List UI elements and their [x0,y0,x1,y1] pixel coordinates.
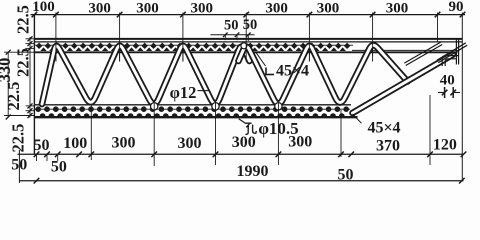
dimension labels bottom chain [11,133,457,183]
svg-text:300: 300 [288,133,312,150]
svg-text:φ12: φ12 [170,83,197,102]
svg-text:300: 300 [386,0,409,16]
svg-text:300: 300 [112,135,136,152]
bottom chord rivet dots [35,106,349,112]
bottom chord flat bar 45x4 [34,105,357,117]
bottom chord bent-up diagonal [353,55,454,114]
svg-text:370: 370 [376,138,400,155]
svg-text:45×4: 45×4 [367,119,400,136]
label hole phi10.5 [239,119,299,138]
svg-text:300: 300 [178,135,202,152]
top chord weld triangles [40,47,346,51]
bolt holes phi10.5 [151,43,283,110]
svg-text:45×4: 45×4 [276,63,309,80]
svg-text:300: 300 [136,0,159,16]
svg-text:330: 330 [0,58,14,83]
svg-text:40: 40 [440,72,455,88]
svg-text:50: 50 [34,137,50,154]
label 45x4 bottom chord [353,114,401,136]
dimension 1990 overall [19,150,464,184]
dimension 50 50 at lap joint [211,17,258,41]
left dimension label 22.5 bottom [9,124,28,153]
dimension line bottom chain [18,152,467,162]
svg-text:50: 50 [224,18,239,34]
extension lines top chain [56,13,462,182]
svg-text:300: 300 [88,0,111,16]
dimension 40 seat width [438,72,460,98]
svg-text:300: 300 [317,0,340,16]
svg-text:120: 120 [433,137,457,154]
svg-text:300: 300 [265,0,288,16]
svg-text:22.5: 22.5 [9,124,28,153]
label L45x4 top chord [256,52,310,80]
left extension stubs [4,39,34,116]
anchor stroke 2 at support [437,43,467,63]
svg-text:300: 300 [190,0,213,16]
svg-text:90: 90 [449,0,464,15]
left dimension labels [0,5,33,110]
apex centreline stubs [56,43,373,62]
svg-text:100: 100 [32,0,55,15]
bottom chord scallops [40,113,345,116]
dimension line top chain [31,12,466,18]
top chord rivet dots [36,43,350,49]
svg-text:300: 300 [232,134,256,151]
svg-text:100: 100 [63,135,87,152]
web bar 2 zigzag phi12 [239,45,408,104]
svg-text:50: 50 [243,17,258,33]
right end post and seat angle [442,39,458,66]
top chord angle L45x4 [34,39,462,52]
svg-text:22.5: 22.5 [14,48,33,77]
dimension labels top chain [32,0,463,16]
left inner dimension chain 22.5 [28,36,33,118]
left edge extension line [33,15,35,155]
svg-text:22.5: 22.5 [4,82,23,111]
svg-text:50: 50 [51,158,67,175]
label phi12 web bar [170,83,209,102]
anchor stroke 1 at support [404,42,442,65]
web bar 1 zigzag phi12 [42,46,250,104]
extension lines to bottom chain [91,95,430,166]
svg-text:22.5: 22.5 [14,5,33,34]
left outer dimension chain 330 [6,50,11,120]
svg-text:1990: 1990 [237,163,269,180]
